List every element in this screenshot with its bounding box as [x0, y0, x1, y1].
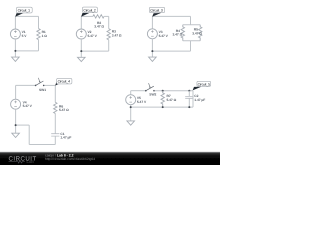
svg-text:Circuit_2: Circuit_2 [83, 8, 96, 12]
wire top rail right circuit 4 [44, 84, 55, 86]
wire source bottom circuit 3 [151, 39, 153, 57]
resistor R7 [161, 91, 177, 107]
junction dot circuit 2 [80, 50, 82, 52]
svg-text:5.47 V: 5.47 V [159, 34, 169, 38]
ground circuit 4 [12, 133, 20, 137]
wire bottom rail circuit 5 [131, 106, 193, 108]
wire top rail right circuit 2 [104, 15, 109, 17]
node flag Circuit_3 [149, 7, 164, 16]
svg-text:3.47 Ω: 3.47 Ω [173, 33, 183, 37]
ground circuit 5 [127, 121, 135, 125]
svg-text:http://circuitlab.com/c6ze6b62: http://circuitlab.com/c6ze6b62tg64 [45, 157, 95, 161]
capacitor C2 [185, 91, 205, 107]
wire top rail left circuit 5 [131, 90, 146, 92]
wire left rail circuit 4 [15, 85, 17, 99]
wire right rail lower circuit 1 [38, 40, 40, 51]
voltage source V3 [147, 29, 168, 39]
wire top rail right circuit 5 [155, 90, 193, 92]
junction dot circuit 1 [14, 50, 16, 52]
svg-text:LAB: LAB [27, 159, 35, 164]
junction dot circuit 4 [15, 124, 17, 126]
svg-text:1.47 µF: 1.47 µF [194, 98, 205, 102]
junction dot C2 top [188, 90, 190, 92]
svg-text:Circuit_3: Circuit_3 [150, 9, 163, 13]
node flag Circuit_5 [193, 81, 211, 90]
resistor R5 [192, 25, 202, 41]
wire top rail circuit 3 [152, 15, 190, 17]
voltage source V4 [11, 99, 33, 109]
wire source bottom circuit 4 [15, 109, 17, 133]
wire bottom link circuit 4 [16, 124, 30, 126]
switch SW1 [35, 78, 46, 92]
svg-text:SW1: SW1 [39, 88, 46, 92]
junction dot R7 bottom [162, 106, 164, 108]
resistor R6 [54, 102, 69, 113]
junction dot C2 bottom [188, 106, 190, 108]
resistor R1 [37, 29, 47, 40]
svg-text:Circuit_1: Circuit_1 [18, 9, 31, 13]
wire top rail left circuit 4 [16, 84, 36, 86]
wire bottom rail circuit 2 [81, 50, 108, 52]
wire right rail upper circuit 2 [108, 16, 110, 28]
wire left rail circuit 3 [151, 16, 153, 28]
wire parallel bottom bar circuit 3 [183, 40, 200, 42]
resistor R4 [173, 25, 185, 41]
wire parallel top bar circuit 3 [183, 24, 200, 26]
svg-text:3.47 Ω: 3.47 Ω [94, 25, 104, 29]
node flag Circuit_1 [15, 7, 32, 17]
svg-text:Circuit_5: Circuit_5 [198, 82, 211, 86]
wire bottom left riser circuit 4 [28, 125, 30, 144]
wire bottom rail circuit 4 [29, 144, 55, 146]
wire top drop circuit 3 [190, 16, 192, 24]
wire bottom rail circuit 3 [152, 50, 190, 52]
resistor R2 [93, 15, 104, 29]
switch SW2 [145, 83, 157, 96]
svg-text:1.47 µF: 1.47 µF [60, 136, 71, 140]
wire top rail circuit 1 [15, 15, 38, 17]
wire mid right rail circuit 4 [54, 114, 56, 134]
capacitor C1 [51, 132, 71, 140]
voltage source V5 [126, 95, 147, 105]
ground circuit 3 [149, 57, 157, 61]
svg-text:SW2: SW2 [149, 92, 156, 96]
svg-text:5.47 V: 5.47 V [23, 104, 33, 108]
wire left rail circuit 1 [14, 16, 16, 29]
wire right rail circuit 5 [192, 91, 194, 107]
svg-text:5.47 V: 5.47 V [137, 100, 147, 104]
resistor R3 [107, 29, 122, 40]
wire right rail lower circuit 2 [108, 40, 110, 51]
wire cap bottom circuit 4 [54, 136, 56, 144]
svg-text:Circuit_4: Circuit_4 [58, 80, 71, 84]
wire bottom drop circuit 3 [190, 41, 192, 51]
wire left rail circuit 5 [130, 91, 132, 95]
ground circuit 1 [12, 57, 20, 61]
svg-text:5 V: 5 V [22, 34, 28, 38]
svg-text:5.47 Ω: 5.47 Ω [167, 98, 177, 102]
node flag Circuit_4 [55, 78, 72, 85]
junction dot circuit 3 [151, 50, 153, 52]
voltage source V2 [76, 29, 97, 39]
junction dot circuit 5 [130, 106, 132, 108]
ground circuit 2 [78, 57, 86, 61]
junction dot R7 top [162, 90, 164, 92]
wire source bottom circuit 1 [14, 39, 16, 57]
wire left rail circuit 2 [80, 16, 82, 29]
wire source bottom circuit 2 [80, 39, 82, 57]
svg-text:5.47 V: 5.47 V [88, 34, 98, 38]
svg-text:3.47 Ω: 3.47 Ω [192, 32, 202, 36]
wire top rail left circuit 2 [81, 15, 93, 17]
svg-text:1 Ω: 1 Ω [42, 34, 48, 38]
wire bottom rail circuit 1 [15, 50, 38, 52]
node flag Circuit_2 [81, 7, 97, 17]
svg-text:3.47 Ω: 3.47 Ω [112, 33, 122, 37]
wire right rail upper circuit 1 [38, 16, 40, 28]
wire right rail upper circuit 4 [54, 85, 56, 102]
wire source bottom circuit 5 [130, 105, 132, 121]
voltage source V1 [10, 29, 27, 39]
svg-text:5.47 Ω: 5.47 Ω [59, 108, 69, 112]
